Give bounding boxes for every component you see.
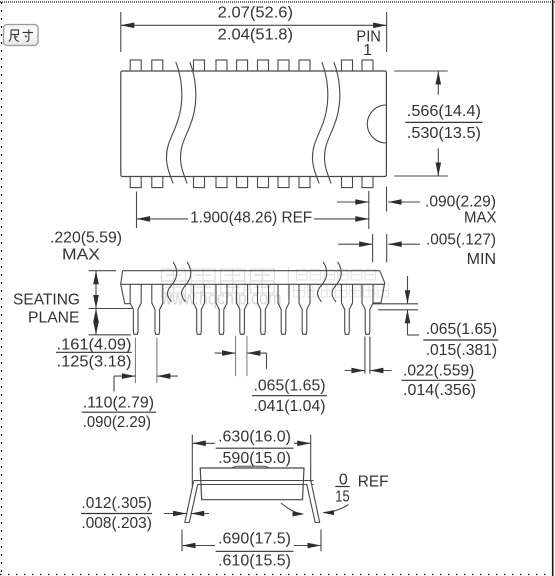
svg-text:.610(15.5): .610(15.5)	[218, 552, 291, 569]
svg-text:.110(2.79): .110(2.79)	[83, 395, 154, 412]
svg-text:.065(1.65): .065(1.65)	[426, 321, 497, 338]
svg-text:2.07(52.6): 2.07(52.6)	[218, 5, 293, 22]
svg-text:.012(.305): .012(.305)	[81, 495, 151, 512]
svg-text:.125(3.18): .125(3.18)	[57, 354, 132, 371]
svg-text:.161(4.09): .161(4.09)	[57, 337, 132, 354]
svg-text:PLANE: PLANE	[28, 310, 80, 327]
svg-text:MIN: MIN	[467, 251, 497, 268]
svg-text:SEATING: SEATING	[13, 291, 80, 308]
svg-text:2.04(51.8): 2.04(51.8)	[218, 26, 293, 43]
svg-text:.014(.356): .014(.356)	[403, 382, 476, 399]
svg-text:.015(.381): .015(.381)	[426, 342, 497, 359]
svg-text:.220(5.59): .220(5.59)	[50, 230, 122, 247]
svg-text:1: 1	[363, 42, 372, 59]
svg-text:REF: REF	[358, 473, 389, 490]
svg-text:.022(.559): .022(.559)	[403, 363, 474, 380]
svg-text:.566(14.4): .566(14.4)	[407, 103, 481, 120]
svg-text:www.hqchip.com: www.hqchip.com	[160, 289, 282, 310]
svg-text:.005(.127): .005(.127)	[426, 232, 496, 249]
svg-text:.690(17.5): .690(17.5)	[218, 531, 291, 548]
svg-text:15: 15	[335, 489, 349, 506]
svg-text:MAX: MAX	[464, 210, 497, 227]
svg-text:.041(1.04): .041(1.04)	[254, 398, 326, 415]
svg-text:.090(2.29): .090(2.29)	[425, 194, 496, 211]
svg-text:.530(13.5): .530(13.5)	[407, 125, 481, 142]
svg-text:1.900(48.26) REF: 1.900(48.26) REF	[190, 210, 312, 227]
svg-text:.065(1.65): .065(1.65)	[254, 378, 326, 395]
svg-text:.008(.203): .008(.203)	[81, 515, 151, 532]
svg-text:MAX: MAX	[62, 247, 100, 264]
svg-text:.590(15.0): .590(15.0)	[218, 450, 291, 467]
svg-text:.630(16.0): .630(16.0)	[218, 428, 291, 445]
svg-text:.090(2.29): .090(2.29)	[83, 414, 151, 431]
